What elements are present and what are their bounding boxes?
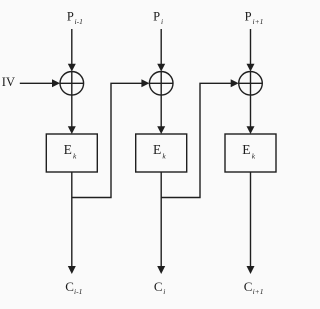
feedback wire 2 (E_k2 output to XOR3) <box>161 83 231 197</box>
svg-text:C: C <box>65 279 74 294</box>
arrowhead into box 3 <box>247 126 255 134</box>
arrowhead C_{i+1} <box>247 266 255 274</box>
arrowhead C_{i-1} <box>68 266 76 274</box>
wire P_{i-1} to XOR1 <box>71 29 73 65</box>
wire E_k 2 output <box>160 172 162 267</box>
block E_k 3 <box>225 134 276 172</box>
arrowhead into XOR2 top <box>157 64 165 72</box>
svg-text:i+1: i+1 <box>253 17 264 26</box>
wire IV to XOR1 <box>20 82 52 84</box>
label P_i <box>153 10 163 26</box>
svg-text:E: E <box>64 142 72 157</box>
arrowhead into XOR1 left <box>52 79 60 87</box>
arrowhead into XOR3 left <box>231 79 239 87</box>
arrowhead C_i <box>157 266 165 274</box>
wire E_k 1 output <box>71 172 73 267</box>
label C_i <box>154 279 165 296</box>
wire XOR2 to E_k box 2 <box>160 95 162 127</box>
svg-text:i+1: i+1 <box>253 287 264 296</box>
arrowhead into box 2 <box>157 126 165 134</box>
xor gate X1 <box>60 72 84 96</box>
wire XOR3 to E_k box 3 <box>250 95 252 127</box>
svg-text:C: C <box>154 279 163 294</box>
label C_{i+1} <box>244 279 264 296</box>
wire E_k 3 output <box>250 172 252 267</box>
svg-text:IV: IV <box>2 75 15 89</box>
block E_k 2 <box>136 134 187 172</box>
xor gate X3 <box>239 72 263 96</box>
label E_k 3 <box>242 142 255 161</box>
svg-text:P: P <box>153 10 160 24</box>
svg-text:E: E <box>242 142 250 157</box>
arrowhead into box 1 <box>68 126 76 134</box>
svg-text:P: P <box>67 10 74 24</box>
block E_k 1 <box>46 134 97 172</box>
svg-text:i: i <box>163 287 165 296</box>
label C_{i-1} <box>65 279 82 296</box>
wire XOR1 to E_k box 1 <box>71 95 73 127</box>
label E_k 2 <box>153 142 166 161</box>
label E_k 1 <box>64 142 77 161</box>
svg-text:i-1: i-1 <box>74 287 82 296</box>
label P_{i+1} <box>245 10 264 26</box>
svg-text:E: E <box>153 142 161 157</box>
label P_{i-1} <box>67 10 83 26</box>
svg-text:P: P <box>245 10 252 24</box>
svg-text:C: C <box>244 279 253 294</box>
wire P_{i+1} to XOR3 <box>250 29 252 65</box>
arrowhead into XOR1 top <box>68 64 76 72</box>
svg-text:i-1: i-1 <box>75 17 83 26</box>
xor gate X2 <box>149 72 173 96</box>
feedback wire 1 (E_k1 output to XOR2) <box>72 83 142 197</box>
arrowhead into XOR3 top <box>247 64 255 72</box>
arrowhead into XOR2 left <box>141 79 149 87</box>
wire P_i to XOR2 <box>160 29 162 65</box>
svg-text:i: i <box>161 17 163 26</box>
